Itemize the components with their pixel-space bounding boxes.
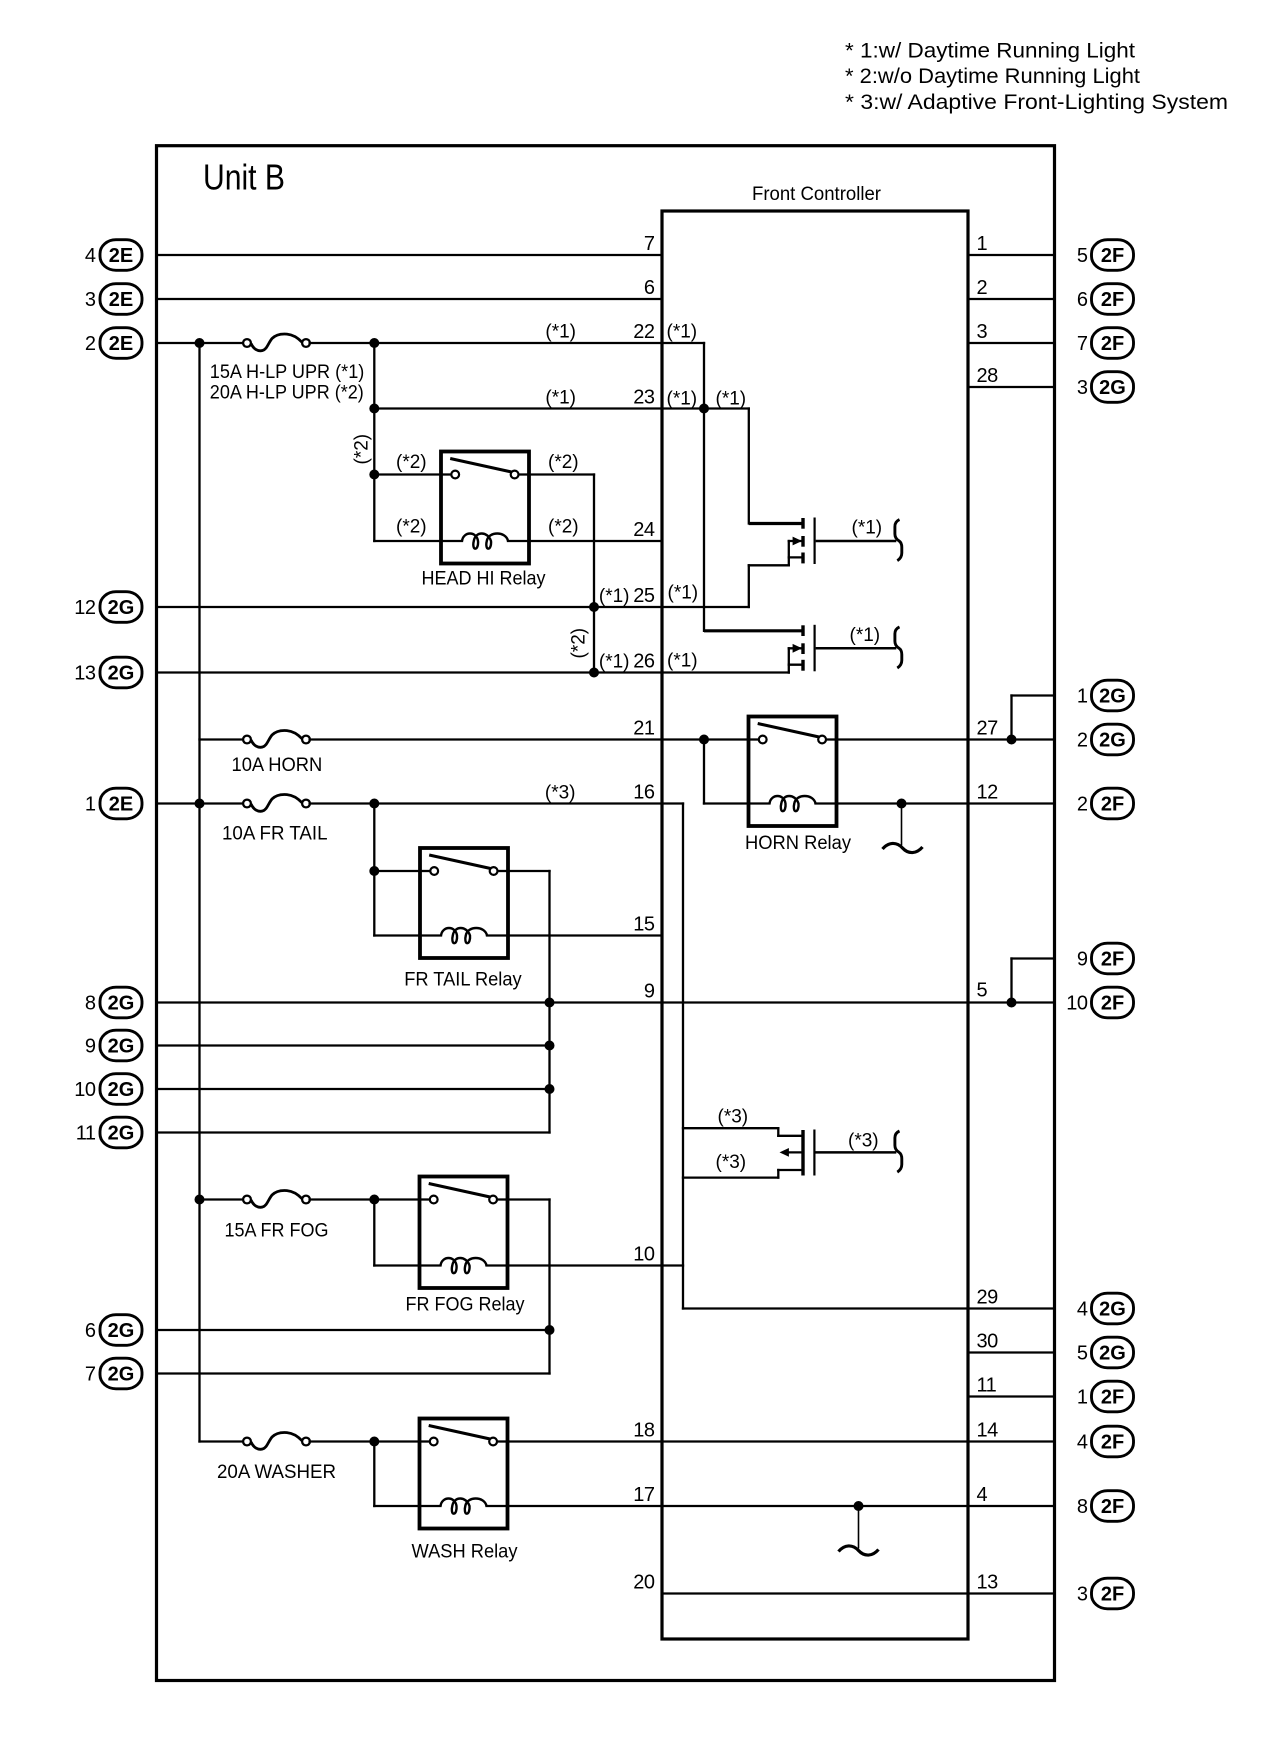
label FR TAIL Relay	[404, 970, 522, 991]
svg-text:(*2): (*2)	[569, 628, 590, 659]
svg-text:2: 2	[1077, 730, 1088, 752]
brace load break	[895, 520, 902, 561]
svg-text:3: 3	[1077, 1584, 1088, 1606]
connector 5 2F	[1077, 240, 1134, 271]
pin 29 (Front Controller right)	[977, 1287, 999, 1309]
relay K2 FR TAIL	[420, 848, 508, 958]
junction ground node G2	[854, 1501, 864, 1511]
connector 3 2E	[85, 284, 142, 315]
svg-text:HEAD HI Relay: HEAD HI Relay	[422, 569, 546, 590]
svg-text:2G: 2G	[108, 1123, 135, 1145]
wire pin 27 to 2(2G)	[968, 738, 1054, 740]
wire 1(2E) to fuse	[157, 802, 243, 804]
svg-text:1: 1	[85, 794, 96, 816]
svg-text:2F: 2F	[1101, 993, 1124, 1015]
wire pin 28 to 3(2G)	[968, 386, 1054, 388]
wire pin 29 internal	[683, 1307, 968, 1309]
pin 5 (Front Controller right)	[977, 980, 988, 1002]
wire Q2 drain feed	[704, 629, 803, 632]
wire pin 13 to 3(2F)	[968, 1592, 1054, 1594]
wire WASH coil to pin 17	[508, 1505, 663, 1507]
svg-text:2F: 2F	[1101, 1387, 1124, 1409]
wire feed to fog fuse	[200, 1198, 244, 1200]
label (*1) Q2 lead	[850, 625, 881, 646]
junction node E1	[369, 1437, 379, 1447]
svg-text:12: 12	[977, 782, 999, 804]
connector 4 2G	[1077, 1293, 1134, 1324]
wire branch up to 1(2G) v	[1010, 696, 1012, 740]
wire Q3 top jog v	[777, 1128, 779, 1136]
svg-text:20A WASHER: 20A WASHER	[217, 1462, 336, 1483]
junction node B2	[369, 338, 379, 348]
wire pin 16 internal	[662, 802, 683, 804]
svg-text:20A H-LP UPR (*2): 20A H-LP UPR (*2)	[210, 382, 364, 403]
wire 4(2E) to pin 7	[157, 254, 662, 256]
junction row26	[589, 668, 599, 678]
svg-text:2F: 2F	[1101, 949, 1124, 971]
wire pin 14 to 4(2F)	[968, 1440, 1054, 1442]
junction ground node G1	[897, 799, 907, 809]
wire 6(2G)	[157, 1329, 550, 1331]
svg-text:9: 9	[1077, 949, 1088, 971]
svg-text:2G: 2G	[1099, 1299, 1126, 1321]
wire WASH coil left	[374, 1505, 419, 1507]
svg-text:15A H-LP UPR (*1): 15A H-LP UPR (*1)	[210, 362, 364, 383]
svg-text:(*1): (*1)	[599, 652, 630, 673]
relay K3 FR FOG	[420, 1177, 508, 1289]
wire FR TAIL coil to pin 15	[508, 934, 662, 936]
svg-text:2: 2	[977, 277, 988, 299]
junction right branch 1	[1007, 735, 1017, 745]
svg-text:16: 16	[633, 782, 655, 804]
connector 2 2F	[1077, 788, 1134, 819]
pin 4 (Front Controller right)	[977, 1484, 988, 1506]
svg-text:27: 27	[977, 718, 999, 740]
connector 8 2F	[1077, 1491, 1134, 1522]
svg-text:* 2:w/o Daytime Running Light: * 2:w/o Daytime Running Light	[845, 64, 1140, 88]
pin 23 (Front Controller left)	[633, 387, 655, 409]
pin 10 (Front Controller left)	[633, 1244, 655, 1266]
svg-text:10: 10	[1066, 993, 1088, 1015]
wire 10(2G)	[157, 1088, 550, 1090]
svg-text:2G: 2G	[108, 1364, 135, 1386]
svg-text:9: 9	[85, 1036, 96, 1058]
svg-text:10: 10	[633, 1244, 655, 1266]
fuse F2 HORN	[243, 731, 310, 748]
svg-text:3: 3	[1077, 377, 1088, 399]
wire feed to washer fuse	[200, 1440, 244, 1442]
label (*1) row25 outside	[599, 586, 630, 607]
fuse F4 FR FOG	[243, 1191, 310, 1208]
svg-text:(*2): (*2)	[548, 517, 579, 538]
pin 12 (Front Controller right)	[977, 782, 999, 804]
svg-text:14: 14	[977, 1420, 999, 1442]
wire Q1 drain feed	[749, 522, 803, 525]
value label 15A FR FOG	[225, 1220, 329, 1241]
svg-text:2G: 2G	[108, 597, 135, 619]
brace load break	[895, 627, 902, 668]
svg-text:(*1): (*1)	[852, 518, 883, 539]
wire fr-tail branch vertical	[373, 804, 375, 936]
svg-text:11: 11	[76, 1123, 96, 1145]
wire FR TAIL coil left	[374, 934, 420, 936]
label (*2) coil left	[396, 517, 427, 538]
svg-text:2G: 2G	[108, 1320, 135, 1342]
pin 15 (Front Controller left)	[633, 914, 655, 936]
svg-text:2F: 2F	[1101, 333, 1124, 355]
wire pin 20 to pin 13 internal	[662, 1592, 968, 1594]
pin 14 (Front Controller right)	[977, 1420, 999, 1442]
svg-text:Front Controller: Front Controller	[752, 184, 882, 205]
wire HORN coil to pin 12	[837, 802, 969, 804]
svg-text:4: 4	[85, 245, 96, 267]
wire FR FOG coil left	[374, 1264, 419, 1266]
pin 2 (Front Controller right)	[977, 277, 988, 299]
svg-text:10A HORN: 10A HORN	[232, 755, 323, 776]
junction horn node	[699, 735, 709, 745]
note 1 w/ Daytime Running Light	[845, 39, 1135, 63]
wire Q3 bottom jog h	[683, 1176, 778, 1178]
svg-text:5: 5	[1077, 1343, 1088, 1365]
wire HORN coil internal left	[704, 802, 749, 804]
front controller box U1	[662, 211, 968, 1639]
svg-text:2E: 2E	[109, 333, 133, 355]
svg-text:8: 8	[85, 993, 96, 1015]
svg-text:3: 3	[977, 321, 988, 343]
wire 9(2G)	[157, 1044, 550, 1046]
connector 12 2G	[74, 592, 142, 623]
svg-text:2G: 2G	[1099, 730, 1126, 752]
svg-text:13: 13	[74, 663, 96, 685]
pin 9 (Front Controller left)	[644, 981, 655, 1003]
wire FR FOG coil to pin 10	[508, 1264, 663, 1266]
svg-text:20: 20	[633, 1572, 655, 1594]
connector 7 2G	[85, 1358, 142, 1389]
wire Q1 gate vertical	[748, 565, 750, 607]
wire node B2 to pin 23	[374, 407, 662, 409]
connector 3 2G	[1077, 372, 1134, 403]
wire pin22 drop vertical	[703, 343, 705, 409]
wire pin 12 to 2(2F)	[968, 802, 1054, 804]
svg-text:1: 1	[1077, 686, 1088, 708]
relay K1 HEAD HI	[441, 452, 529, 564]
wire pin 2 to 6(2F)	[968, 298, 1054, 300]
wire fr-fog output vertical	[548, 1200, 550, 1374]
svg-text:(*1): (*1)	[668, 583, 699, 604]
connector 1 2G	[1077, 680, 1134, 711]
junction right branch 2	[1007, 998, 1017, 1008]
pin 25 (Front Controller left)	[633, 585, 655, 607]
svg-text:(*2): (*2)	[396, 452, 427, 473]
value label 20A H-LP UPR (*2)	[210, 382, 364, 403]
wire HEAD HI coil left	[374, 540, 441, 542]
label (*2) rotated on output	[569, 628, 590, 659]
label (*3) row16	[545, 783, 576, 804]
svg-text:(*1): (*1)	[667, 651, 698, 672]
svg-text:10: 10	[74, 1079, 96, 1101]
svg-text:24: 24	[633, 519, 655, 541]
connector 6 2G	[85, 1315, 142, 1346]
wire pin 5 to 10(2F)	[968, 1001, 1054, 1003]
wire fr-tail output vertical	[548, 871, 550, 1133]
pin 18 (Front Controller left)	[633, 1420, 655, 1442]
wire pin 25 internal	[662, 606, 749, 608]
svg-text:(*2): (*2)	[548, 452, 579, 473]
svg-text:6: 6	[85, 1320, 96, 1342]
wire HORN contact to pin 27	[837, 738, 969, 740]
svg-text:15: 15	[633, 914, 655, 936]
label (*1) row22 inside	[667, 322, 698, 343]
wire 7(2G)	[157, 1372, 550, 1374]
wire FR FOG contact out	[508, 1198, 550, 1200]
label HORN Relay	[745, 833, 851, 854]
wire pin 4 to 8(2F)	[968, 1505, 1054, 1507]
label (*1) row23 inside-left	[667, 389, 698, 410]
label Unit B	[203, 157, 285, 198]
svg-text:2E: 2E	[109, 289, 133, 311]
value label 10A HORN	[232, 755, 323, 776]
connector 9 2F	[1077, 943, 1134, 974]
svg-text:13: 13	[977, 1572, 999, 1594]
wire 8(2G) to pin 9	[157, 1001, 662, 1003]
pin 7 (Front Controller left)	[644, 233, 655, 255]
svg-text:Unit B: Unit B	[203, 157, 285, 198]
connector 1 2F	[1077, 1381, 1134, 1412]
svg-text:(*2): (*2)	[352, 434, 373, 465]
label (*1) Q1 lead	[852, 518, 883, 539]
svg-text:2G: 2G	[108, 1079, 135, 1101]
note 3 w/ Adaptive Front-Lighting System	[845, 90, 1228, 114]
connector 10 2G	[74, 1074, 142, 1105]
svg-text:9: 9	[644, 981, 655, 1003]
svg-text:29: 29	[977, 1287, 999, 1309]
pin 27 (Front Controller right)	[977, 718, 999, 740]
svg-text:(*2): (*2)	[396, 517, 427, 538]
connector 2 2G	[1077, 724, 1134, 755]
svg-text:2F: 2F	[1101, 289, 1124, 311]
wire pin 30 to 5(2G)	[968, 1351, 1054, 1353]
pin 16 (Front Controller left)	[633, 782, 655, 804]
wire fuse to WASH contact	[310, 1440, 420, 1442]
svg-text:2F: 2F	[1101, 1496, 1124, 1518]
svg-text:8: 8	[1077, 1496, 1088, 1518]
junction node C2	[369, 799, 379, 809]
svg-text:21: 21	[633, 718, 655, 740]
svg-text:10A FR TAIL: 10A FR TAIL	[222, 824, 328, 845]
svg-text:(*3): (*3)	[848, 1131, 879, 1152]
wire wash branch vertical	[373, 1442, 375, 1507]
unit B enclosure box	[157, 146, 1055, 1681]
svg-text:HORN Relay: HORN Relay	[745, 833, 851, 854]
wire HEAD HI coil to pin 24	[529, 540, 662, 542]
svg-text:2E: 2E	[109, 794, 133, 816]
wire 13(2G) to pin 26	[157, 671, 662, 673]
svg-text:* 1:w/ Daytime Running Light: * 1:w/ Daytime Running Light	[845, 39, 1135, 63]
junction node C1	[195, 799, 205, 809]
value label 10A FR TAIL	[222, 824, 328, 845]
wire pin 3 to 7(2F)	[968, 342, 1054, 344]
wire branch to 9(2F)	[1012, 957, 1055, 959]
svg-text:2G: 2G	[108, 663, 135, 685]
wire to Q1 drain vertical	[748, 409, 750, 524]
connector 9 2G	[85, 1030, 142, 1061]
label WASH Relay	[412, 1542, 518, 1563]
connector 6 2F	[1077, 284, 1134, 315]
svg-text:12: 12	[74, 597, 96, 619]
junction fr-tail contact	[369, 866, 379, 876]
label (*3) Q3 lead	[848, 1131, 879, 1152]
connector 7 2F	[1077, 328, 1134, 359]
label (*1) row23 outside	[545, 388, 576, 409]
wire pin 1 to 5(2F)	[968, 254, 1054, 256]
wire to FR TAIL contact	[374, 870, 420, 872]
label Front Controller	[752, 184, 882, 205]
connector 11 2G	[76, 1117, 142, 1148]
wire branch to 1(2G)	[1012, 694, 1055, 696]
svg-text:7: 7	[644, 233, 655, 255]
wire 2(2E) to fuse	[157, 342, 243, 344]
svg-text:6: 6	[1077, 289, 1088, 311]
wire pin 23 internal	[662, 407, 749, 409]
brace load break Q3	[895, 1131, 902, 1172]
svg-text:18: 18	[633, 1420, 655, 1442]
wire WASH contact to pin 18	[508, 1440, 663, 1442]
junction head-hi contact	[369, 470, 379, 480]
relay K5 HORN	[749, 717, 837, 827]
svg-text:4: 4	[1077, 1432, 1088, 1454]
wire HEAD HI contact out	[529, 473, 594, 475]
wire 3(2E) to pin 6	[157, 298, 662, 300]
pin 17 (Front Controller left)	[633, 1484, 655, 1506]
wire fuse to FR FOG contact	[310, 1198, 420, 1200]
wire branch up to 9(2F) v	[1010, 959, 1012, 1003]
svg-text:2F: 2F	[1101, 1584, 1124, 1606]
wire pin 17 to pin 4 internal	[662, 1505, 968, 1507]
label FR FOG Relay	[406, 1295, 525, 1316]
wire pin 26 internal	[662, 671, 789, 673]
label (*1) row23 inside-right	[716, 389, 747, 410]
connector 3 2F	[1077, 1578, 1134, 1609]
transistor Q1 (*1)	[789, 518, 897, 566]
svg-text:(*1): (*1)	[545, 388, 576, 409]
wire fuse to pin 21	[310, 738, 662, 740]
pin 28 (Front Controller right)	[977, 365, 999, 387]
junction row 8(2G)	[545, 998, 555, 1008]
wire fr-fog branch vertical	[373, 1200, 375, 1266]
label (*2) rotated on branch	[352, 434, 373, 465]
svg-text:(*3): (*3)	[545, 783, 576, 804]
junction node D1	[195, 1195, 205, 1205]
junction node B1	[195, 338, 205, 348]
svg-text:2G: 2G	[1099, 377, 1126, 399]
label (*2) contact right	[548, 452, 579, 473]
svg-text:(*1): (*1)	[667, 389, 698, 410]
label (*1) row26 inside	[667, 651, 698, 672]
svg-text:(*1): (*1)	[667, 322, 698, 343]
wire Q3 bottom jog v	[777, 1170, 779, 1178]
svg-text:(*1): (*1)	[599, 586, 630, 607]
label (*3) Q3 lower	[716, 1152, 747, 1173]
svg-text:5: 5	[977, 980, 988, 1002]
svg-text:30: 30	[977, 1331, 999, 1353]
connector 5 2G	[1077, 1337, 1134, 1368]
fuse F1 H-LP UPR	[243, 334, 310, 351]
connector 8 2G	[85, 987, 142, 1018]
note 2 w/o Daytime Running Light	[845, 64, 1140, 88]
pin 24 (Front Controller left)	[633, 519, 655, 541]
pin 6 (Front Controller left)	[644, 277, 655, 299]
connector 2 2E	[85, 328, 142, 359]
pin 20 (Front Controller left)	[633, 1572, 655, 1594]
svg-text:(*1): (*1)	[850, 625, 881, 646]
wire (*3) vertical	[682, 804, 684, 1309]
svg-text:28: 28	[977, 365, 999, 387]
wire pin 21 internal	[662, 738, 749, 740]
label (*2) coil right	[548, 517, 579, 538]
relay K4 WASH	[420, 1419, 508, 1529]
svg-text:2F: 2F	[1101, 794, 1124, 816]
svg-text:2G: 2G	[108, 1036, 135, 1058]
svg-text:3: 3	[85, 289, 96, 311]
pin 1 (Front Controller right)	[977, 233, 988, 255]
svg-text:WASH Relay: WASH Relay	[412, 1542, 518, 1563]
svg-text:4: 4	[1077, 1299, 1088, 1321]
svg-text:2G: 2G	[1099, 1343, 1126, 1365]
wire pin 18 to pin 14 internal	[662, 1440, 968, 1442]
svg-text:17: 17	[633, 1484, 655, 1506]
junction row23 at branch	[369, 404, 379, 414]
svg-text:5: 5	[1077, 245, 1088, 267]
transistor Q2 (*1)	[789, 625, 897, 673]
fuse F5 WASHER	[243, 1433, 310, 1450]
connector 4 2E	[85, 240, 142, 271]
label HEAD HI Relay	[422, 569, 546, 590]
svg-text:1: 1	[977, 233, 988, 255]
wire fuse to pin 22	[310, 342, 662, 344]
wire to HEAD HI contact	[374, 473, 441, 475]
label (*1) row25 inside	[668, 583, 699, 604]
pin 26 (Front Controller left)	[633, 651, 655, 673]
svg-text:25: 25	[633, 585, 655, 607]
svg-text:(*3): (*3)	[716, 1152, 747, 1173]
wire pin 11 to 1(2F)	[968, 1395, 1054, 1397]
svg-text:22: 22	[633, 321, 655, 343]
svg-text:FR FOG Relay: FR FOG Relay	[406, 1295, 525, 1316]
wire 12(2G) to pin 25	[157, 606, 662, 608]
pin 30 (Front Controller right)	[977, 1331, 999, 1353]
wire pin 10 internal	[662, 1264, 683, 1266]
svg-text:4: 4	[977, 1484, 988, 1506]
junction row25	[589, 602, 599, 612]
wire horn coil vertical	[703, 740, 705, 804]
wire left feed vertical	[198, 343, 200, 1442]
svg-text:(*3): (*3)	[718, 1107, 749, 1128]
pin 22 (Front Controller left)	[633, 321, 655, 343]
fuse F3 FR TAIL	[243, 795, 310, 812]
svg-text:11: 11	[977, 1375, 997, 1397]
wire head-hi branch vertical	[373, 343, 375, 541]
wire 11(2G)	[157, 1131, 550, 1133]
junction row 9(2G)	[545, 1041, 555, 1051]
junction pin22/23 node	[699, 404, 709, 414]
junction row 10(2G)	[545, 1084, 555, 1094]
wire head-hi output vertical	[593, 475, 595, 673]
value label 20A WASHER	[217, 1462, 336, 1483]
transistor Q3 (*3)	[778, 1130, 896, 1176]
svg-text:7: 7	[1077, 333, 1088, 355]
label (*1) row22 outside	[545, 322, 576, 343]
junction row 6(2G)	[545, 1325, 555, 1335]
